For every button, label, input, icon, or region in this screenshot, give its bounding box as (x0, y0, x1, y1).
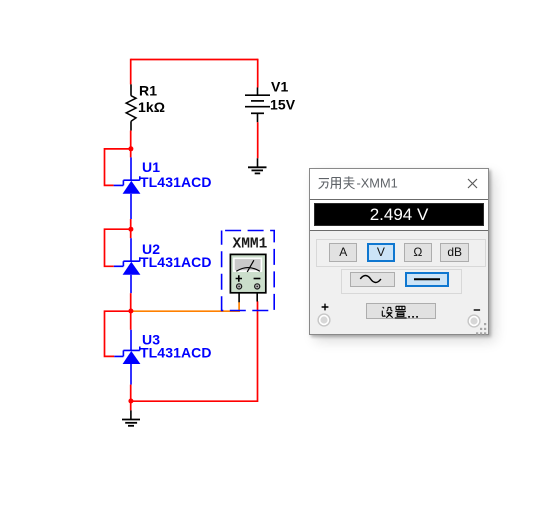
label XMM1 (233, 236, 268, 252)
label R1 value 1kΩ (138, 99, 165, 115)
label U1 refdes (142, 159, 160, 175)
label R1 refdes (139, 83, 157, 99)
wire: U1 anode to node B (130, 219, 132, 229)
multimeter XMM1 meter icon (230, 254, 265, 302)
node B junction (U1 anode / U2 cathode / U2 ref loop) (128, 227, 133, 232)
label U3 value TL431ACD (140, 344, 212, 360)
panel black readout 2.494 V (314, 203, 484, 225)
wire: R1 bottom to node A (130, 131, 132, 149)
wire: V1 minus to ground (257, 122, 259, 158)
wire: node A to U1 cathode pin (130, 149, 132, 158)
panel + input jack (317, 313, 331, 327)
label U1 value TL431ACD (140, 174, 212, 190)
button V (selected) (367, 243, 396, 262)
panel signal group box (341, 269, 462, 294)
svg-text:15V: 15V (270, 97, 296, 113)
node D junction (U3 anode / ground / meter -) (128, 399, 133, 404)
svg-text:TL431ACD: TL431ACD (140, 174, 212, 190)
settings button 设置... (366, 303, 437, 319)
wire: U3 ref feedback loop (105, 311, 131, 356)
panel mode group box (316, 239, 486, 267)
ground (main) (122, 410, 140, 425)
shunt reference U1 TL431ACD (114, 157, 141, 219)
svg-text:XMM1: XMM1 (233, 236, 268, 252)
button A (329, 243, 357, 262)
button DC (dash, selected) (405, 272, 449, 287)
shunt reference U2 TL431ACD (114, 238, 141, 293)
button Ω (404, 243, 432, 262)
button dB (440, 243, 469, 262)
panel close button X (467, 178, 478, 189)
svg-text:R1: R1 (139, 83, 157, 99)
svg-text:-XMM1: -XMM1 (357, 176, 398, 190)
multimeter panel window 万用表-XMM1 (309, 168, 489, 335)
label U3 refdes (142, 331, 160, 347)
shunt reference U3 TL431ACD (114, 330, 140, 385)
battery V1 (245, 88, 270, 123)
node A junction (R1 / U1 cathode / U1 ref loop) (128, 146, 133, 151)
wire: node B to U2 cathode pin (130, 229, 132, 238)
panel + terminal label (321, 303, 329, 311)
resistor R1 (126, 84, 136, 130)
wire: node C to U3 cathode pin (130, 311, 132, 330)
node C junction (U2 anode / U3 cathode / U3 ref loop / meter +) (128, 309, 133, 314)
ground (below V1) (248, 158, 267, 173)
panel display bezel (310, 199, 488, 231)
label U2 refdes (142, 241, 160, 257)
panel - terminal label (473, 307, 481, 313)
label V1 refdes (271, 79, 288, 95)
svg-text:U1: U1 (142, 159, 160, 175)
wire: rail down to R1 top (130, 59, 132, 85)
wire: node D to multimeter - (red) (131, 301, 258, 401)
wire: top rail V1+ to R1 (131, 59, 258, 61)
panel resize grip (474, 322, 488, 335)
panel - input jack (467, 314, 481, 328)
wire: node C to multimeter + (orange) (131, 302, 239, 311)
svg-text:V1: V1 (271, 79, 288, 95)
svg-text:TL431ACD: TL431ACD (140, 344, 212, 360)
svg-text:TL431ACD: TL431ACD (140, 254, 212, 270)
wire: U2 ref feedback loop (105, 229, 131, 266)
multimeter XMM1 dashed boundary (222, 231, 275, 311)
wire: U3 anode to node D (130, 385, 132, 401)
wire: U1 ref feedback loop (105, 149, 131, 186)
wire: U2 anode to node C (130, 293, 132, 311)
button AC (sine) (350, 272, 395, 287)
svg-text:1kΩ: 1kΩ (138, 99, 165, 115)
wire: rail down to V1 top (257, 59, 259, 88)
wire: node D to ground (130, 401, 132, 410)
label U2 value TL431ACD (140, 254, 212, 270)
panel title bar (310, 169, 488, 199)
label V1 value 15V (270, 97, 296, 113)
